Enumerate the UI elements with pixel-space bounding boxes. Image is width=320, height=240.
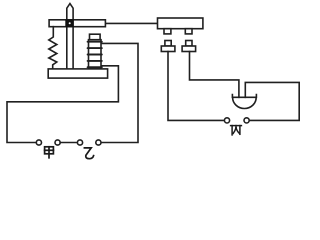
label yi (乙)	[84, 148, 93, 159]
switch yi contacts	[77, 140, 101, 145]
wire post1 down to switch bing left contact	[168, 52, 224, 121]
battery tab 2	[185, 29, 192, 34]
base of relay	[48, 69, 107, 78]
pivot block (black square)	[65, 19, 74, 27]
battery tab 1	[164, 29, 171, 34]
armature bar	[49, 20, 105, 27]
wire coil-bottom to left edge to switch jia	[7, 66, 118, 143]
switch jia contacts	[36, 140, 60, 145]
binding post 1	[161, 41, 175, 52]
switch bing contacts	[224, 118, 249, 123]
wire post2 down and right to bell left terminal	[190, 52, 239, 98]
coil winding bands	[88, 42, 102, 67]
wire between switch jia and switch yi	[60, 142, 77, 144]
coil top cap	[90, 34, 101, 40]
coil (electromagnet) body	[89, 40, 102, 69]
spring	[49, 27, 57, 69]
iron core column with pointed contact pin	[67, 4, 73, 69]
bell right terminal wire to right edge down to switch bing right contact	[245, 82, 299, 120]
bell (dome with flat top)	[232, 95, 256, 109]
battery box	[158, 18, 203, 29]
wire coil-top down to switch yi right contact	[100, 43, 138, 142]
label jia (甲)	[45, 147, 54, 158]
pivot pin hole (white dot)	[69, 22, 71, 24]
label bing (丙)	[231, 126, 242, 135]
binding post 2	[182, 41, 196, 52]
wire armature to battery box	[105, 22, 157, 24]
